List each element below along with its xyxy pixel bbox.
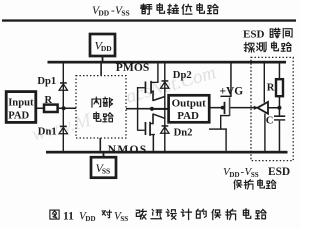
wire: internal box stub to VSS rail (bottom) [100,138,102,151]
svg-text:Dp1: Dp1 [37,76,56,87]
wire: C bottom to VSS rail [279,121,281,151]
svg-text:DD: DD [85,215,95,223]
wire: VDD box stub to rail [102,56,104,61]
svg-text:PAD: PAD [177,110,199,122]
wire: inverter input to RC node [268,107,280,109]
svg-text:DD: DD [229,171,239,179]
svg-text:C: C [266,116,274,127]
label: VDD-VSS ESD protection circuit [223,166,290,189]
svg-text:Dn2: Dn2 [174,128,193,139]
wire: R bottom to RC node to C top [279,96,281,116]
wire: inverter supply column upper [264,63,265,102]
wire: buffer common gate line [137,87,138,131]
wire: internal circuit output to pad node [126,108,152,110]
wire: rail stub into internal box (top) [100,63,102,75]
Input PAD box [6,92,36,123]
svg-text:Dn1: Dn1 [38,127,57,138]
wire: output diode column (VDD to VSS) [164,63,165,151]
svg-text:R: R [267,82,275,93]
power symbol VDD box [90,34,115,56]
svg-text:Input: Input [8,97,34,108]
diode Dp2 [161,80,169,88]
resistor R (detection) [276,79,283,96]
diode Dp1 [59,82,67,90]
junction dot: input node [62,106,66,110]
figure top label: VDD-VSS electrostatic clamp circuit [92,4,218,18]
svg-text:DD: DD [98,9,109,18]
svg-text:NMOS: NMOS [108,143,148,156]
transistor NMOS (output buffer) [138,114,166,151]
svg-text:Dp2: Dp2 [173,70,192,81]
svg-text:ESD: ESD [268,166,290,178]
svg-text:PMOS: PMOS [116,61,150,74]
power symbol VSS box [91,157,116,178]
svg-text:ESD: ESD [243,28,264,40]
svg-text:SS: SS [251,171,259,179]
internal circuit dashed box [76,76,126,138]
figure caption: Fig.11 improved VDD-to-VSS protection circuit [50,209,266,223]
diode Dn2 [161,125,169,133]
horizontal rule under title [2,19,296,21]
resistor R (series input) [44,105,58,112]
wire: input diode column (VDD to VSS) [63,63,64,151]
watermark [30,62,219,146]
wire: Output PAD to clamp gate [209,107,223,109]
svg-text:SS: SS [121,9,129,18]
svg-text:11: 11 [63,210,74,222]
transistor PMOS (output buffer) [138,63,166,100]
wire: Input PAD to resistor R [36,108,44,110]
svg-text:SS: SS [120,215,128,223]
svg-text:R: R [45,95,53,106]
Output PAD box [169,95,210,122]
VSS rail (bottom) [46,151,288,154]
ESD transient detection dotted box [251,57,293,160]
wire: input node to internal circuit box [64,108,77,110]
transistor Mesd (big NMOS ESD clamp) [209,96,232,151]
wire: rail to resistor R top [279,63,281,79]
inverter U1 (trigger) [254,102,268,114]
wire: clamp drain to VDD rail [230,63,232,96]
wire: inverter supply column lower [264,114,265,151]
VDD rail (top) [48,61,287,64]
junction dot: buffer drain node [150,107,154,111]
junction dot on clamp gate [221,106,225,110]
label: ESD transient detection circuit [243,28,292,52]
svg-text:DD: DD [101,44,112,53]
diode Dn1 [59,126,67,134]
label: internal circuit (nei bu / dian lu) [92,97,113,122]
svg-text:SS: SS [102,166,110,175]
junction dot RC node [277,106,281,110]
wire: VSS box stub to rail [103,153,105,157]
wire: clamp gate node to inverter output [230,107,257,109]
wire: R to input node [58,108,64,110]
svg-text:PAD: PAD [8,111,29,122]
svg-text:Output: Output [172,98,207,110]
wire: pad node horizontal (to Output PAD) [152,108,169,110]
capacitor C [274,115,285,120]
